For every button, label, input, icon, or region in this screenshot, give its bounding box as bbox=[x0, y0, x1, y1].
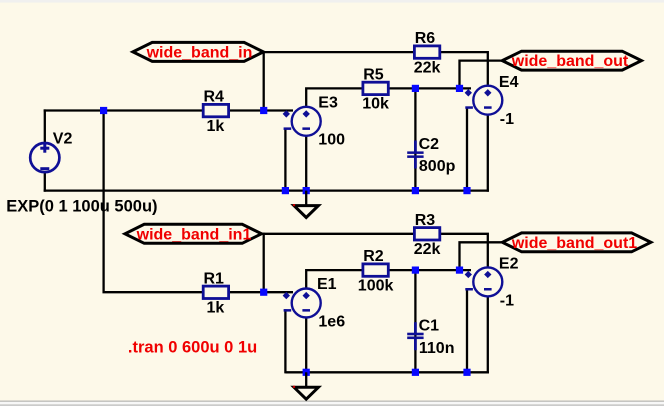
wire V2 left vertical lower bbox=[44, 172, 46, 192]
wire R3 left segment bbox=[262, 233, 415, 235]
op-amp stage VCVS E1 bbox=[283, 289, 321, 318]
ground symbol stage 1 bbox=[293, 191, 319, 218]
op-amp stage VCVS E4 bbox=[465, 86, 503, 115]
op-amp stage VCVS E2 bbox=[465, 267, 503, 296]
svg-text:-1: -1 bbox=[500, 293, 514, 310]
capacitor C2 bbox=[407, 141, 423, 169]
resistor R1 bbox=[203, 286, 228, 298]
wire ground rail stage 1 bbox=[44, 189, 489, 191]
node junction R5/C2 bbox=[412, 85, 419, 92]
wire R4 right to E3 control bbox=[229, 109, 293, 111]
svg-text:EXP(0 1 100u 500u): EXP(0 1 100u 500u) bbox=[6, 198, 157, 216]
svg-text:1e6: 1e6 bbox=[318, 313, 345, 330]
voltage source V2 bbox=[30, 143, 59, 172]
wire R5 right to E4 control+ bbox=[388, 87, 471, 89]
window chrome bottom strip bbox=[0, 401, 664, 402]
svg-text:R3: R3 bbox=[415, 212, 436, 229]
wire E2 out- drop bbox=[487, 296, 489, 373]
svg-text:1k: 1k bbox=[207, 118, 225, 135]
node junction wide_band_out bbox=[456, 85, 463, 92]
wire E1 control- drop bbox=[284, 309, 286, 373]
node junction C1 bottom rail bbox=[412, 369, 419, 376]
node junction E2 ctrl- rail bbox=[463, 369, 470, 376]
svg-text:V2: V2 bbox=[53, 131, 73, 148]
wire C1 vertical bbox=[414, 270, 416, 372]
ground symbol stage 2 bbox=[293, 372, 319, 399]
wire E4 out- drop bbox=[487, 114, 489, 191]
wire E2 control- drop bbox=[466, 289, 468, 372]
svg-text:R1: R1 bbox=[204, 270, 225, 287]
resistor R4 bbox=[203, 104, 228, 116]
wire R2 right to E2 control+ bbox=[388, 269, 471, 271]
wire E1 out- drop bbox=[305, 317, 307, 372]
svg-text:800p: 800p bbox=[419, 158, 456, 175]
node junction C2 bottom rail bbox=[412, 187, 419, 194]
svg-text:R5: R5 bbox=[363, 67, 384, 84]
node junction R1 right bbox=[260, 289, 267, 296]
wire R1 right to E1 control bbox=[229, 291, 293, 293]
svg-text:22k: 22k bbox=[414, 59, 441, 76]
wire E4 control- drop bbox=[466, 108, 468, 191]
wire V2 top horizontal to R4 bbox=[44, 109, 204, 111]
node junction R4 right bbox=[260, 107, 267, 114]
svg-text:R2: R2 bbox=[363, 248, 384, 265]
wire wide_band_out flag to node bbox=[460, 61, 503, 89]
wire ground rail stage 2 bbox=[285, 371, 489, 373]
resistor R6 bbox=[414, 46, 439, 58]
wire V2 left vertical upper bbox=[44, 109, 46, 144]
svg-text:E1: E1 bbox=[317, 276, 337, 293]
wire E3 control- drop bbox=[284, 128, 286, 191]
net flag wide_band_out1 bbox=[502, 233, 651, 252]
svg-text:wide_band_out: wide_band_out bbox=[511, 53, 629, 70]
node junction E3 ctrl- rail bbox=[282, 187, 289, 194]
svg-text:C2: C2 bbox=[419, 136, 440, 153]
svg-text:wide_band_out1: wide_band_out1 bbox=[511, 235, 637, 252]
svg-text:E4: E4 bbox=[499, 74, 519, 91]
svg-text:1k: 1k bbox=[207, 300, 225, 317]
svg-text:C1: C1 bbox=[419, 318, 440, 335]
node junction R2/C1 bbox=[412, 267, 419, 274]
net flag wide_band_in1 bbox=[125, 224, 262, 243]
svg-text:R6: R6 bbox=[415, 30, 436, 47]
capacitor C1 bbox=[407, 322, 423, 350]
svg-text:10k: 10k bbox=[362, 96, 389, 113]
wire wide_band_in flag drop bbox=[263, 51, 265, 112]
wire R6 right segment to E4 out+ bbox=[440, 52, 488, 86]
node junction wide_band_out1 bbox=[456, 267, 463, 274]
wire C2 vertical bbox=[414, 88, 416, 190]
window chrome top strip bbox=[0, 0, 664, 3]
svg-text:E3: E3 bbox=[318, 95, 338, 112]
net flag wide_band_out bbox=[502, 51, 641, 70]
svg-text:.tran 0 600u 0 1u: .tran 0 600u 0 1u bbox=[128, 338, 257, 356]
resistor R5 bbox=[363, 82, 388, 94]
wire R3 right segment to E2 out+ bbox=[440, 234, 488, 268]
wire E3 out+ up and right to R5 bbox=[306, 88, 363, 107]
net flag wide_band_in bbox=[133, 42, 264, 61]
wire wide_band_out1 flag to node bbox=[460, 242, 503, 270]
wire R6 left segment bbox=[264, 51, 415, 53]
node junction V2 top bbox=[100, 107, 107, 114]
resistor R2 bbox=[363, 264, 388, 276]
node junction E3 out- rail bbox=[303, 187, 310, 194]
svg-text:110n: 110n bbox=[419, 340, 455, 357]
svg-text:wide_band_in: wide_band_in bbox=[146, 44, 253, 61]
svg-text:R4: R4 bbox=[204, 89, 225, 106]
svg-text:100: 100 bbox=[318, 132, 345, 149]
wire E1 out+ up and right to R2 bbox=[306, 270, 363, 289]
wire wide_band_in1 flag drop bbox=[263, 233, 265, 294]
wire middle vertical from node A down to stage2 input bbox=[104, 111, 204, 293]
svg-text:wide_band_in1: wide_band_in1 bbox=[136, 226, 252, 243]
svg-text:100k: 100k bbox=[358, 277, 394, 294]
svg-text:22k: 22k bbox=[414, 241, 441, 258]
svg-text:-1: -1 bbox=[500, 111, 514, 128]
resistor R3 bbox=[414, 228, 439, 240]
wire E3 out- drop bbox=[305, 135, 307, 190]
node junction E4 ctrl- rail bbox=[463, 187, 470, 194]
svg-text:E2: E2 bbox=[499, 256, 519, 273]
node junction E1 out- rail bbox=[303, 369, 310, 376]
op-amp stage VCVS E3 bbox=[283, 107, 321, 136]
